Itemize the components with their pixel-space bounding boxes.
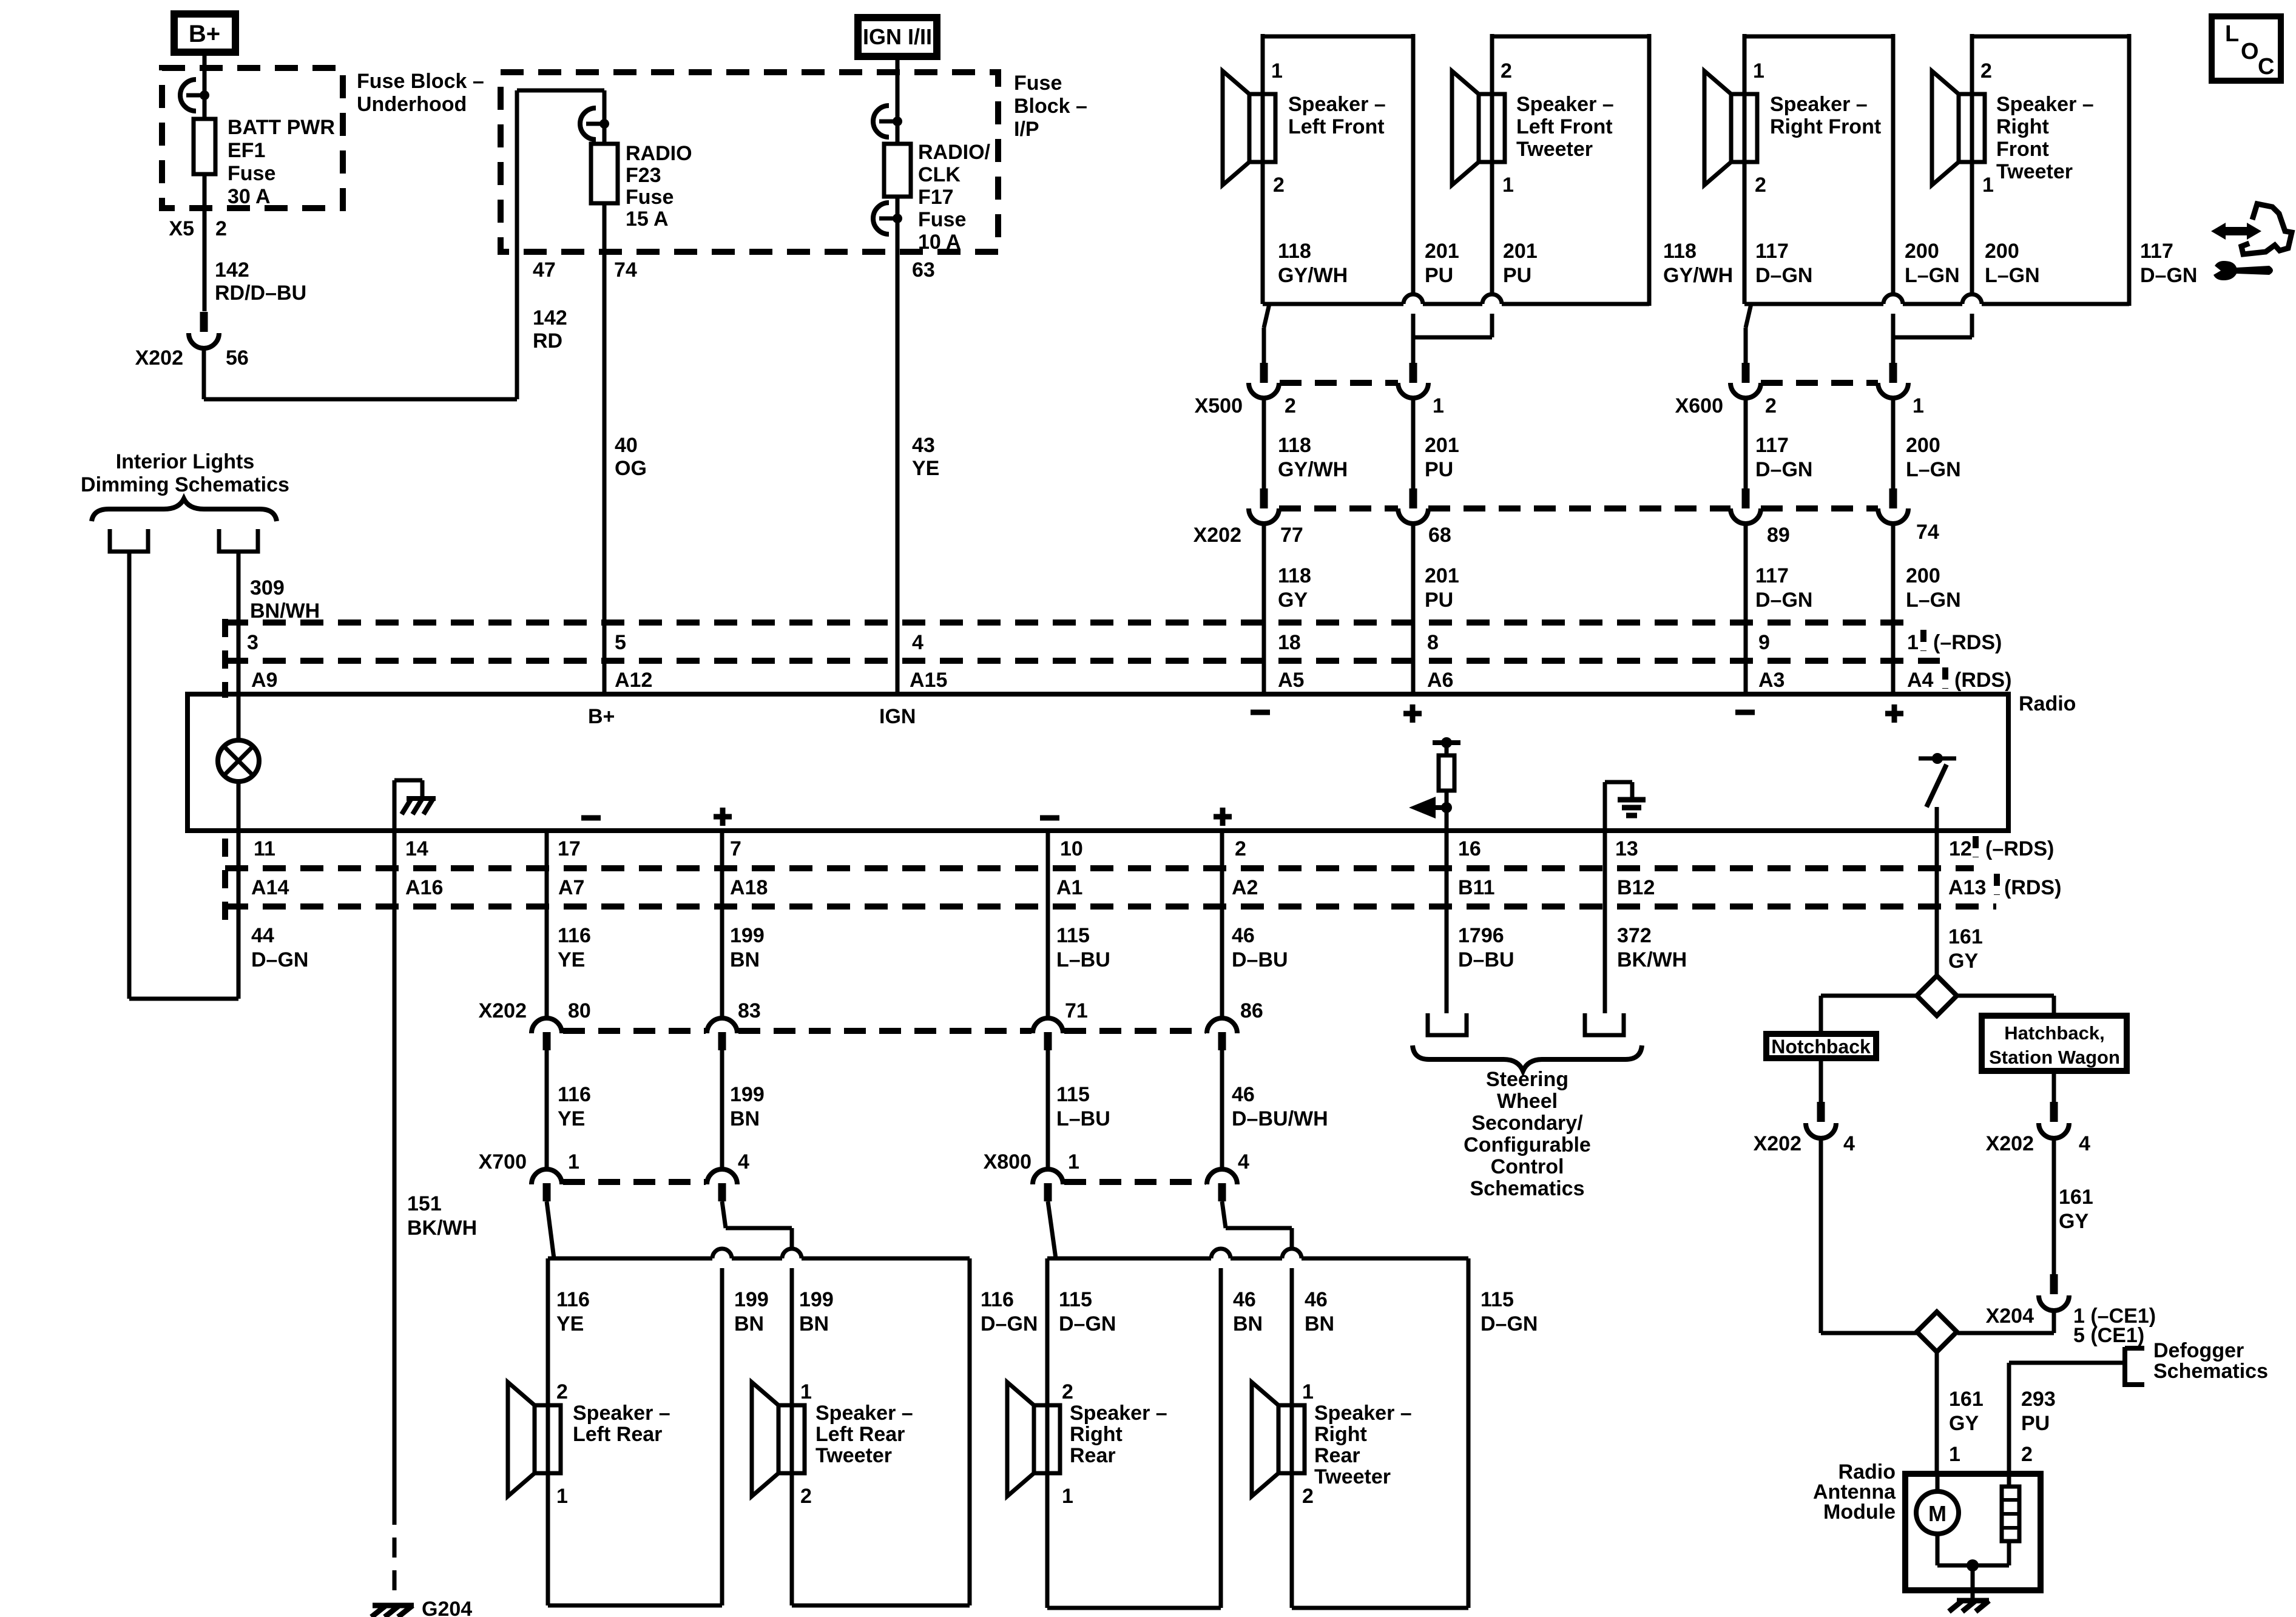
svg-text:80: 80 xyxy=(568,999,591,1022)
svg-text:2: 2 xyxy=(1980,59,1992,83)
svg-text:15 A: 15 A xyxy=(626,208,669,231)
svg-text:D–GN: D–GN xyxy=(1755,589,1812,612)
svg-text:Control: Control xyxy=(1491,1155,1564,1178)
svg-text:GY/WH: GY/WH xyxy=(1663,264,1733,287)
svg-text:199: 199 xyxy=(734,1288,769,1311)
svg-text:D–GN: D–GN xyxy=(2140,264,2197,287)
svg-text:PU: PU xyxy=(1503,264,1531,287)
svg-text:Radio: Radio xyxy=(2019,692,2076,715)
svg-text:Left Front: Left Front xyxy=(1516,115,1613,138)
svg-text:2: 2 xyxy=(1285,394,1296,417)
svg-text:Dimming Schematics: Dimming Schematics xyxy=(81,473,289,496)
svg-text:PU: PU xyxy=(2021,1412,2050,1435)
svg-text:RADIO: RADIO xyxy=(626,142,692,165)
svg-text:151: 151 xyxy=(407,1192,442,1215)
svg-text:Speaker –: Speaker – xyxy=(573,1402,670,1425)
svg-text:Schematics: Schematics xyxy=(2153,1360,2268,1383)
svg-text:F17: F17 xyxy=(918,186,954,209)
svg-text:372: 372 xyxy=(1617,924,1652,947)
svg-text:Speaker –: Speaker – xyxy=(1516,93,1614,116)
svg-text:Speaker –: Speaker – xyxy=(1288,93,1386,116)
svg-text:PU: PU xyxy=(1425,589,1453,612)
svg-text:D–GN: D–GN xyxy=(251,948,308,971)
svg-text:116: 116 xyxy=(556,1288,590,1311)
svg-text:201: 201 xyxy=(1425,240,1459,263)
svg-text:161: 161 xyxy=(1948,925,1983,948)
svg-text:X700: X700 xyxy=(479,1150,527,1173)
svg-text:47: 47 xyxy=(533,258,556,282)
svg-text:Defogger: Defogger xyxy=(2153,1339,2244,1362)
svg-text:142: 142 xyxy=(215,258,249,282)
svg-text:Configurable: Configurable xyxy=(1464,1133,1591,1156)
svg-text:115: 115 xyxy=(1056,1083,1090,1106)
svg-text:G204: G204 xyxy=(422,1598,472,1617)
svg-text:1: 1 xyxy=(1433,394,1444,417)
svg-text:A1: A1 xyxy=(1056,876,1082,899)
svg-text:83: 83 xyxy=(738,999,761,1022)
svg-text:2: 2 xyxy=(215,217,227,240)
svg-text:A18: A18 xyxy=(730,876,768,899)
svg-text:A7: A7 xyxy=(558,876,584,899)
svg-text:293: 293 xyxy=(2021,1388,2056,1411)
svg-text:Speaker –: Speaker – xyxy=(1070,1402,1167,1425)
svg-text:GY: GY xyxy=(2059,1210,2088,1233)
svg-text:74: 74 xyxy=(614,258,637,282)
svg-text:X202: X202 xyxy=(1986,1132,2034,1155)
svg-text:OG: OG xyxy=(615,457,647,480)
svg-text:68: 68 xyxy=(1428,524,1451,547)
svg-text:X600: X600 xyxy=(1675,394,1723,417)
svg-text:D–GN: D–GN xyxy=(1755,458,1812,481)
svg-text:I/P: I/P xyxy=(1014,118,1039,141)
svg-text:Left Rear: Left Rear xyxy=(815,1423,905,1446)
svg-text:BK/WH: BK/WH xyxy=(1617,948,1687,971)
svg-text:BN: BN xyxy=(1233,1312,1263,1335)
svg-text:4: 4 xyxy=(1843,1132,1855,1155)
svg-text:199: 199 xyxy=(799,1288,834,1311)
svg-text:(RDS): (RDS) xyxy=(1954,669,2011,692)
svg-text:2: 2 xyxy=(2021,1443,2033,1466)
svg-text:D–GN: D–GN xyxy=(1481,1312,1538,1335)
svg-text:46: 46 xyxy=(1233,1288,1256,1311)
svg-text:BN: BN xyxy=(734,1312,764,1335)
svg-text:(–RDS): (–RDS) xyxy=(1985,837,2054,860)
svg-text:Speaker –: Speaker – xyxy=(1314,1402,1412,1425)
svg-text:A16: A16 xyxy=(405,876,443,899)
svg-text:CLK: CLK xyxy=(918,163,961,186)
svg-text:(–RDS): (–RDS) xyxy=(1933,631,2002,654)
svg-text:GY/WH: GY/WH xyxy=(1278,264,1348,287)
svg-text:Tweeter: Tweeter xyxy=(1996,160,2073,183)
svg-text:117: 117 xyxy=(1755,434,1789,457)
svg-text:Hatchback,: Hatchback, xyxy=(2004,1022,2104,1044)
svg-text:16: 16 xyxy=(1458,837,1481,860)
svg-text:D–GN: D–GN xyxy=(981,1312,1038,1335)
svg-text:46: 46 xyxy=(1232,924,1255,947)
svg-text:Tweeter: Tweeter xyxy=(815,1444,892,1467)
svg-text:Right: Right xyxy=(1996,115,2049,138)
svg-text:X5: X5 xyxy=(169,217,194,240)
svg-text:BN/WH: BN/WH xyxy=(250,599,320,623)
svg-text:1: 1 xyxy=(1068,1150,1079,1173)
svg-text:Fuse: Fuse xyxy=(626,186,674,209)
svg-text:Wheel: Wheel xyxy=(1497,1090,1558,1113)
svg-text:YE: YE xyxy=(558,1107,585,1130)
svg-text:F23: F23 xyxy=(626,164,661,187)
svg-text:1: 1 xyxy=(1982,174,1994,197)
svg-text:5 (CE1): 5 (CE1) xyxy=(2073,1324,2144,1347)
svg-text:200: 200 xyxy=(1906,434,1940,457)
svg-text:BK/WH: BK/WH xyxy=(407,1217,477,1240)
svg-text:L–GN: L–GN xyxy=(1905,264,1960,287)
svg-text:71: 71 xyxy=(1065,999,1088,1022)
svg-text:X202: X202 xyxy=(135,346,183,370)
svg-text:11: 11 xyxy=(254,837,275,860)
svg-text:2: 2 xyxy=(1302,1485,1314,1508)
svg-text:Tweeter: Tweeter xyxy=(1314,1465,1391,1488)
svg-text:44: 44 xyxy=(251,924,274,947)
svg-text:YE: YE xyxy=(556,1312,584,1335)
svg-text:GY/WH: GY/WH xyxy=(1278,458,1348,481)
svg-text:12: 12 xyxy=(1949,837,1972,860)
svg-text:RD: RD xyxy=(533,329,562,353)
svg-text:200: 200 xyxy=(1906,564,1940,587)
svg-text:B12: B12 xyxy=(1617,876,1655,899)
svg-text:IGN: IGN xyxy=(879,705,916,728)
svg-text:Right Front: Right Front xyxy=(1770,115,1881,138)
svg-text:8: 8 xyxy=(1427,631,1439,654)
svg-text:161: 161 xyxy=(1949,1388,1984,1411)
svg-text:117: 117 xyxy=(2140,240,2173,263)
svg-text:GY: GY xyxy=(1949,1412,1979,1435)
svg-text:BN: BN xyxy=(730,948,760,971)
svg-text:Steering: Steering xyxy=(1486,1068,1568,1091)
svg-text:Underhood: Underhood xyxy=(357,93,467,116)
svg-text:Schematics: Schematics xyxy=(1470,1177,1585,1200)
svg-text:X500: X500 xyxy=(1195,394,1243,417)
svg-text:1: 1 xyxy=(1062,1485,1073,1508)
svg-text:10 A: 10 A xyxy=(918,231,961,254)
svg-text:A9: A9 xyxy=(251,669,277,692)
svg-text:Front: Front xyxy=(1996,138,2049,161)
svg-text:BATT PWR: BATT PWR xyxy=(228,116,335,139)
svg-text:PU: PU xyxy=(1425,458,1453,481)
svg-text:43: 43 xyxy=(912,434,935,457)
svg-text:1: 1 xyxy=(1502,174,1514,197)
svg-text:14: 14 xyxy=(405,837,428,860)
svg-text:X800: X800 xyxy=(984,1150,1032,1173)
svg-text:4: 4 xyxy=(1238,1150,1249,1173)
svg-text:89: 89 xyxy=(1767,524,1790,547)
svg-text:2: 2 xyxy=(1755,174,1766,197)
svg-text:Fuse Block –: Fuse Block – xyxy=(357,70,484,93)
svg-text:Notchback: Notchback xyxy=(1771,1036,1871,1058)
svg-text:Fuse: Fuse xyxy=(228,162,275,185)
svg-text:117: 117 xyxy=(1755,240,1789,263)
svg-text:118: 118 xyxy=(1278,564,1311,587)
svg-text:Left Front: Left Front xyxy=(1288,115,1385,138)
svg-text:A14: A14 xyxy=(251,876,289,899)
svg-text:86: 86 xyxy=(1240,999,1263,1022)
svg-text:PU: PU xyxy=(1425,264,1453,287)
svg-text:4: 4 xyxy=(2079,1132,2090,1155)
svg-text:7: 7 xyxy=(730,837,741,860)
svg-text:Right: Right xyxy=(1070,1423,1123,1446)
svg-text:309: 309 xyxy=(250,576,285,599)
svg-text:1796: 1796 xyxy=(1458,924,1504,947)
svg-text:A6: A6 xyxy=(1427,669,1453,692)
svg-text:D–BU/WH: D–BU/WH xyxy=(1232,1107,1328,1130)
svg-text:Fuse: Fuse xyxy=(1014,72,1062,95)
svg-text:A15: A15 xyxy=(910,669,947,692)
svg-text:GY: GY xyxy=(1948,950,1978,973)
svg-text:63: 63 xyxy=(912,258,935,282)
svg-text:X202: X202 xyxy=(1754,1132,1801,1155)
svg-text:2: 2 xyxy=(1062,1380,1073,1403)
svg-text:BN: BN xyxy=(1305,1312,1334,1335)
svg-text:13: 13 xyxy=(1615,837,1638,860)
svg-text:M: M xyxy=(1928,1501,1947,1526)
svg-text:Tweeter: Tweeter xyxy=(1516,138,1593,161)
svg-text:Speaker –: Speaker – xyxy=(815,1402,913,1425)
svg-text:17: 17 xyxy=(558,837,581,860)
svg-text:46: 46 xyxy=(1305,1288,1328,1311)
svg-text:L: L xyxy=(2225,21,2239,47)
svg-text:116: 116 xyxy=(558,1083,591,1106)
svg-text:142: 142 xyxy=(533,306,567,329)
svg-text:199: 199 xyxy=(730,924,765,947)
svg-text:Speaker –: Speaker – xyxy=(1996,93,2094,116)
svg-text:18: 18 xyxy=(1278,631,1301,654)
svg-text:201: 201 xyxy=(1425,564,1459,587)
svg-text:A5: A5 xyxy=(1278,669,1304,692)
svg-text:1: 1 xyxy=(1302,1380,1314,1403)
svg-text:115: 115 xyxy=(1059,1288,1092,1311)
svg-text:(RDS): (RDS) xyxy=(2004,876,2061,899)
svg-text:IGN I/II: IGN I/II xyxy=(863,24,932,49)
svg-text:Speaker –: Speaker – xyxy=(1770,93,1868,116)
svg-text:Secondary/: Secondary/ xyxy=(1471,1112,1583,1135)
svg-text:200: 200 xyxy=(1985,240,2019,263)
svg-text:199: 199 xyxy=(730,1083,765,1106)
svg-text:D–BU: D–BU xyxy=(1232,948,1288,971)
svg-text:YE: YE xyxy=(912,457,939,480)
svg-text:Right: Right xyxy=(1314,1423,1367,1446)
svg-text:115: 115 xyxy=(1056,924,1090,947)
svg-text:2: 2 xyxy=(1765,394,1777,417)
svg-text:56: 56 xyxy=(226,346,249,370)
svg-text:X204: X204 xyxy=(1986,1305,2034,1328)
svg-text:A2: A2 xyxy=(1232,876,1258,899)
svg-text:BN: BN xyxy=(730,1107,760,1130)
svg-text:4: 4 xyxy=(912,631,923,654)
svg-text:1: 1 xyxy=(800,1380,812,1403)
svg-text:200: 200 xyxy=(1905,240,1939,263)
svg-text:Module: Module xyxy=(1823,1501,1896,1524)
svg-text:117: 117 xyxy=(1755,564,1789,587)
svg-text:Interior Lights: Interior Lights xyxy=(116,450,255,473)
svg-text:1: 1 xyxy=(1753,59,1764,83)
svg-text:3: 3 xyxy=(247,631,258,654)
svg-text:Block –: Block – xyxy=(1014,95,1087,118)
svg-text:L–GN: L–GN xyxy=(1985,264,2040,287)
svg-text:BN: BN xyxy=(799,1312,829,1335)
svg-text:GY: GY xyxy=(1278,589,1308,612)
svg-text:1: 1 xyxy=(1907,631,1919,654)
svg-text:2: 2 xyxy=(556,1380,568,1403)
svg-text:118: 118 xyxy=(1278,434,1311,457)
svg-text:EF1: EF1 xyxy=(228,139,265,162)
svg-text:A12: A12 xyxy=(615,669,652,692)
svg-text:Rear: Rear xyxy=(1314,1444,1360,1467)
svg-text:YE: YE xyxy=(558,948,585,971)
svg-text:L–BU: L–BU xyxy=(1056,948,1110,971)
svg-text:A3: A3 xyxy=(1758,669,1784,692)
svg-text:116: 116 xyxy=(981,1288,1014,1311)
svg-text:5: 5 xyxy=(615,631,626,654)
svg-text:9: 9 xyxy=(1758,631,1770,654)
svg-text:118: 118 xyxy=(1278,240,1311,263)
svg-text:D–BU: D–BU xyxy=(1458,948,1514,971)
svg-text:B+: B+ xyxy=(189,21,220,47)
svg-text:A4: A4 xyxy=(1907,669,1934,692)
svg-text:1: 1 xyxy=(1913,394,1924,417)
svg-text:10: 10 xyxy=(1060,837,1083,860)
svg-text:Left Rear: Left Rear xyxy=(573,1423,662,1446)
svg-text:118: 118 xyxy=(1663,240,1697,263)
svg-text:B+: B+ xyxy=(588,705,615,728)
svg-text:1: 1 xyxy=(1949,1443,1960,1466)
svg-text:2: 2 xyxy=(800,1485,812,1508)
svg-text:1: 1 xyxy=(556,1485,568,1508)
svg-text:201: 201 xyxy=(1503,240,1538,263)
svg-text:X202: X202 xyxy=(479,999,527,1022)
svg-text:L–GN: L–GN xyxy=(1906,589,1961,612)
svg-text:C: C xyxy=(2258,54,2274,79)
svg-text:X202: X202 xyxy=(1194,524,1241,547)
svg-text:4: 4 xyxy=(738,1150,749,1173)
svg-text:Station Wagon: Station Wagon xyxy=(1989,1047,2120,1068)
svg-text:B11: B11 xyxy=(1458,876,1495,899)
svg-text:L–GN: L–GN xyxy=(1906,458,1961,481)
svg-text:161: 161 xyxy=(2059,1186,2093,1209)
svg-text:201: 201 xyxy=(1425,434,1459,457)
svg-text:O: O xyxy=(2241,39,2259,64)
svg-text:40: 40 xyxy=(615,434,638,457)
svg-text:2: 2 xyxy=(1273,174,1285,197)
svg-text:115: 115 xyxy=(1481,1288,1514,1311)
svg-text:D–GN: D–GN xyxy=(1755,264,1812,287)
svg-text:RD/D–BU: RD/D–BU xyxy=(215,282,306,305)
svg-text:2: 2 xyxy=(1235,837,1246,860)
svg-text:1: 1 xyxy=(568,1150,579,1173)
svg-text:2: 2 xyxy=(1501,59,1512,83)
svg-text:RADIO/: RADIO/ xyxy=(918,141,991,164)
svg-text:77: 77 xyxy=(1280,524,1303,547)
svg-text:30 A: 30 A xyxy=(228,185,271,208)
svg-text:D–GN: D–GN xyxy=(1059,1312,1116,1335)
svg-text:74: 74 xyxy=(1916,521,1939,544)
svg-text:46: 46 xyxy=(1232,1083,1255,1106)
svg-text:A13: A13 xyxy=(1948,876,1986,899)
svg-text:1: 1 xyxy=(1271,59,1283,83)
svg-text:Fuse: Fuse xyxy=(918,208,966,231)
svg-text:Rear: Rear xyxy=(1070,1444,1116,1467)
svg-text:116: 116 xyxy=(558,924,591,947)
svg-text:L–BU: L–BU xyxy=(1056,1107,1110,1130)
